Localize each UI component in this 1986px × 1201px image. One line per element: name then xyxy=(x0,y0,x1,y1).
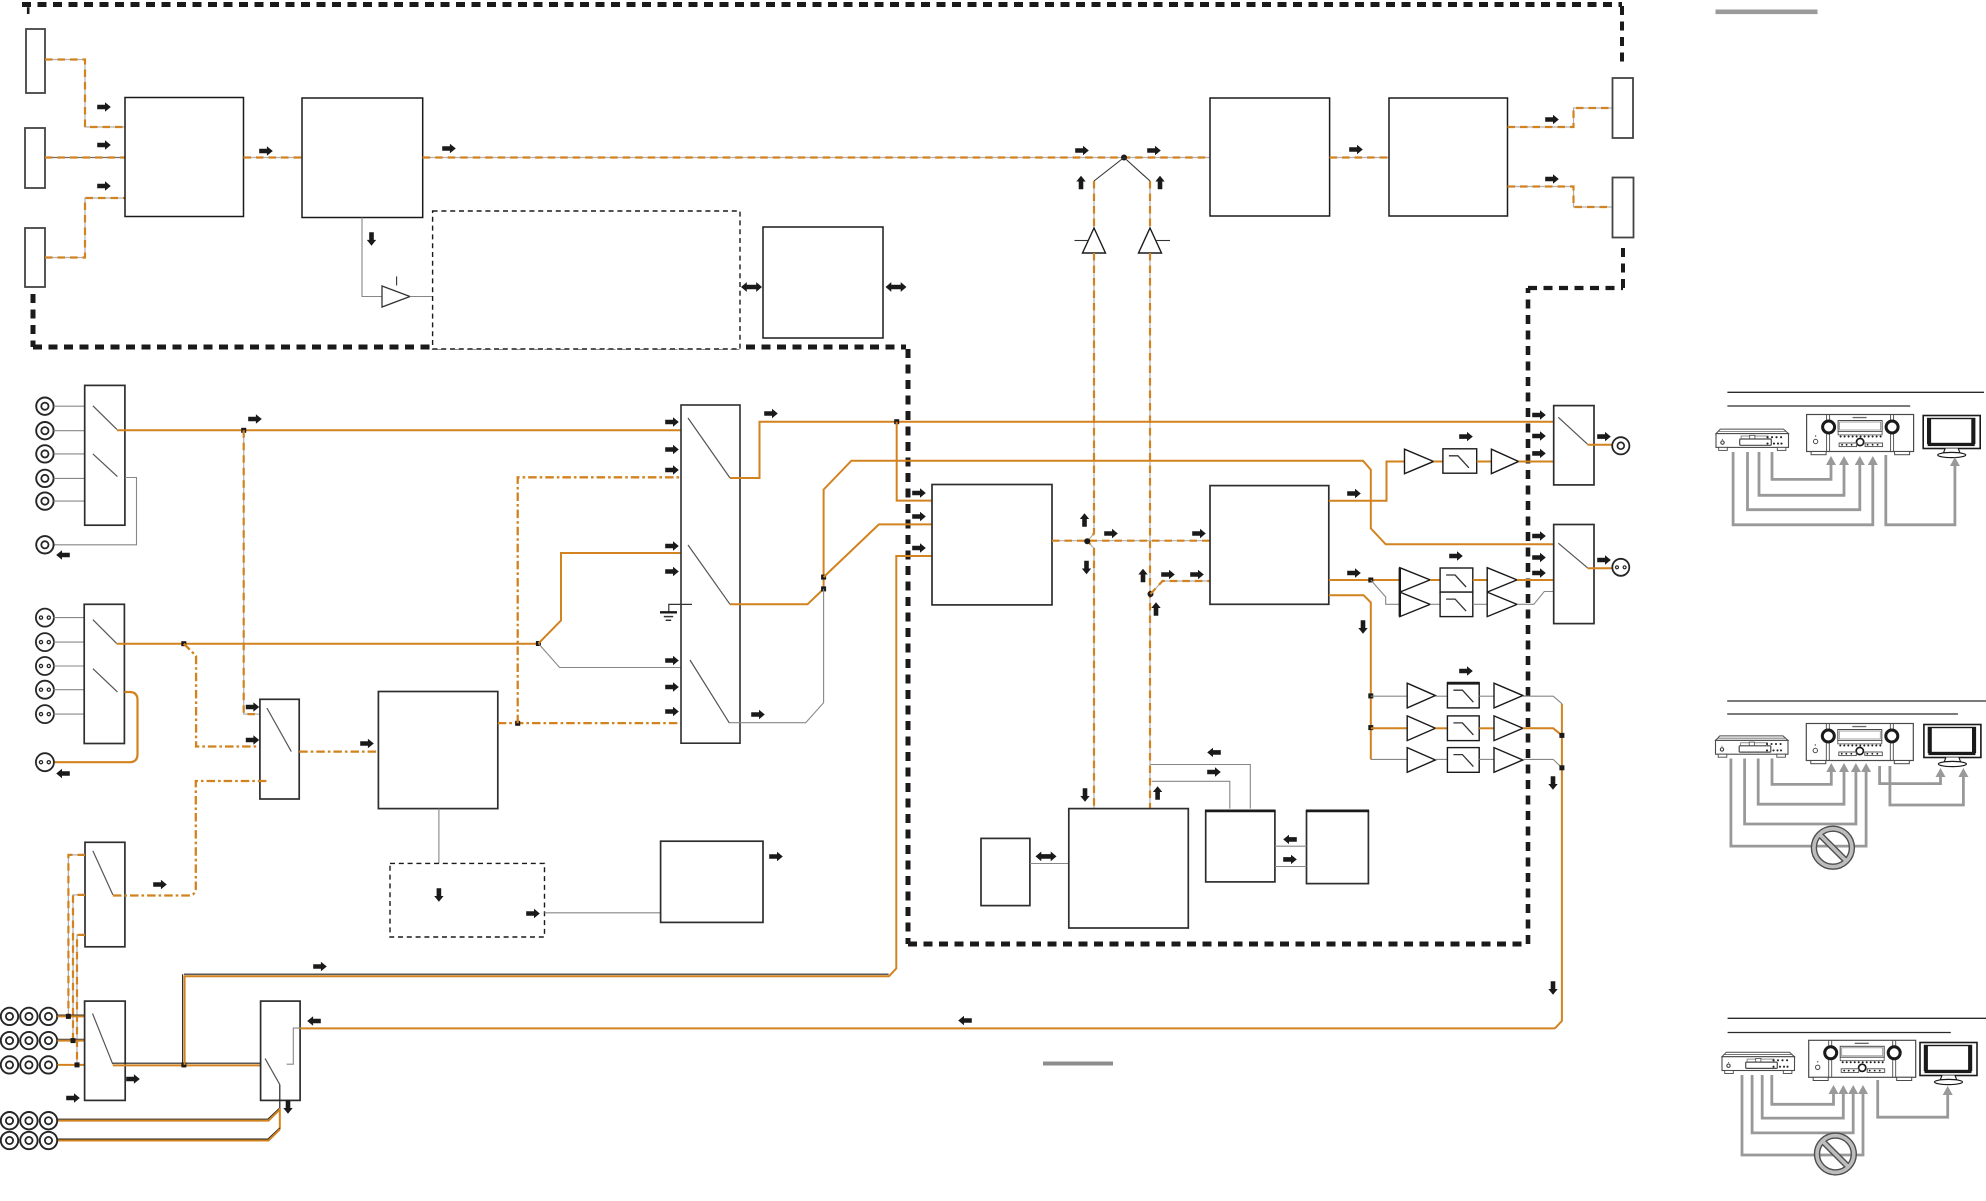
arrow SW7 in4 xyxy=(665,541,679,550)
wire zone lower merge xyxy=(1517,592,1554,605)
arrow ctrl2 xyxy=(1207,767,1221,776)
arrow right after junction xyxy=(1104,529,1118,538)
dashed border bottom edge y944 xyxy=(908,942,1528,947)
wire power amp return long xyxy=(300,1027,1555,1029)
filter surround LPF row1 xyxy=(1447,683,1479,708)
wire SW4 in1 from analog row1 xyxy=(68,855,85,1017)
amp surround out row1 xyxy=(1494,683,1523,708)
cable avr to tv group2 b xyxy=(1890,766,1964,805)
arrow input1 xyxy=(97,102,111,111)
wire SW6 contact step xyxy=(287,1028,301,1064)
wire out2 split lower xyxy=(1371,580,1400,604)
arrow input2 xyxy=(97,140,111,149)
wire U4 to HDMI OUT1 xyxy=(1508,108,1613,127)
heading rule group2 a xyxy=(1727,700,1986,702)
box memory U7 xyxy=(981,838,1030,905)
arrow after junction xyxy=(1147,146,1161,155)
arrow optical out xyxy=(56,769,70,778)
box record out selector SW4 xyxy=(85,842,125,947)
amp surround pre row3 xyxy=(1407,748,1435,773)
dashed border vertical x908 xyxy=(906,349,911,944)
cable dvd1 to avr group1 xyxy=(1772,452,1831,479)
connector HDMI IN 3 xyxy=(25,228,45,287)
box audio DSP DAC U6 xyxy=(1210,486,1329,605)
arrow swB in1 xyxy=(1532,531,1546,540)
wire U3 to U4 xyxy=(1330,157,1389,159)
wire speaker bus down xyxy=(1555,704,1562,1029)
arrow out2 xyxy=(1545,174,1559,183)
cable avr to tv group1 xyxy=(1886,455,1955,525)
wire U2 to CEC buffer xyxy=(362,218,382,297)
arrow down amp bank feed xyxy=(1358,620,1367,634)
arrow SW7a out xyxy=(764,409,778,418)
arrow swA in1 xyxy=(1532,410,1546,419)
wire opt1 xyxy=(53,617,84,619)
node branch to zone switch xyxy=(241,428,246,433)
connector headphone jack xyxy=(1612,437,1629,454)
box analog input selector SW5 xyxy=(85,1001,126,1100)
wire SW3 out to DSP2 xyxy=(299,750,378,752)
illustration AV receiver group2 xyxy=(1806,724,1913,764)
switch SW2a xyxy=(93,620,117,644)
wire branch to DIR in2 xyxy=(824,524,932,577)
switch SW5a xyxy=(93,1014,113,1065)
buffer CEC Q1 xyxy=(382,286,410,307)
wire pre to lpf xyxy=(1434,461,1443,463)
wire zone to switch B xyxy=(1517,579,1554,581)
wire SW4 in3 from analog row3 xyxy=(77,935,85,1065)
connector optical in 5 xyxy=(36,705,54,723)
tick repeater right xyxy=(1156,240,1170,242)
wire vertical repeater left lower xyxy=(1088,253,1095,809)
wire analog bus to ADC input xyxy=(184,973,889,975)
switch SW6a xyxy=(265,1059,280,1085)
arrow above zone LPF xyxy=(1449,551,1463,560)
wire swB out xyxy=(1587,567,1613,569)
arrow U1-U2 xyxy=(259,146,273,155)
arrow SW5 aux xyxy=(66,1093,80,1102)
connector optical in 3 xyxy=(36,657,54,675)
arrow bus down upper xyxy=(1548,776,1557,790)
connector HDMI IN 2 xyxy=(25,128,45,188)
box main DSP U8 xyxy=(1069,809,1189,928)
node bus row3 xyxy=(1559,765,1564,770)
dashed border left tick xyxy=(27,7,30,14)
wire vertical repeater left upper xyxy=(1093,181,1095,229)
buffer repeater right xyxy=(1139,228,1162,253)
wire zone lower b xyxy=(1473,603,1487,605)
amp zone out lower xyxy=(1487,592,1517,617)
cable dvd4 to avr group2 blocked xyxy=(1731,759,1866,847)
wire DSP ctrl line1 xyxy=(1151,765,1251,809)
cable dvd2 to avr group3 xyxy=(1762,1075,1843,1118)
heading rule group3 a xyxy=(1728,1017,1986,1019)
box HDMI receiver U1 xyxy=(125,98,244,217)
arrow SW5 out xyxy=(126,1074,140,1083)
arrow DSP3 out xyxy=(769,852,783,861)
arrow SW7 in7 xyxy=(665,682,679,691)
wire DSP2 out to input selector in8 xyxy=(498,722,693,724)
amp headphone pre xyxy=(1405,449,1434,474)
wire amp row3 in xyxy=(1371,758,1407,760)
box speaker AB switch SW6 xyxy=(261,1001,301,1100)
illustration AV receiver group1 xyxy=(1807,415,1914,455)
arrow U6 out1 xyxy=(1347,489,1361,498)
wire vertical repeater right upper xyxy=(1149,181,1151,229)
wire row3 to speaker bus xyxy=(1523,759,1562,767)
dashed border bottom edge of top band xyxy=(33,345,906,350)
wire optical out loop xyxy=(53,692,137,762)
amp zone pre upper xyxy=(1400,568,1430,592)
arrow up below right branch xyxy=(1151,602,1160,616)
dashed border jog y288 xyxy=(1528,286,1623,290)
wire U6 out1 xyxy=(1329,462,1405,501)
cable dvd4 to avr group1 xyxy=(1733,452,1873,525)
node analog bus tap xyxy=(181,1062,186,1067)
wire analog row1 xyxy=(58,1014,85,1016)
gray label bar bottom middle xyxy=(1043,1062,1113,1066)
box HDMI out driver U4 xyxy=(1389,98,1508,216)
node monitor bus to ADC xyxy=(894,419,899,424)
amp surround out row2 xyxy=(1494,716,1523,741)
wire coax2 xyxy=(54,430,85,432)
connector optical in 1 xyxy=(36,609,54,627)
cable dvd2 to avr group1 xyxy=(1759,452,1844,495)
cable avr to tv group2 a xyxy=(1880,766,1941,784)
box monitor out switch A xyxy=(1554,406,1594,485)
arrow SW3 in2 xyxy=(246,735,259,744)
arrow swB in3 xyxy=(1532,568,1546,577)
wire SW7b out riser xyxy=(730,461,1554,605)
connector preout row4 xyxy=(1,1112,18,1129)
connector HDMI OUT 2 xyxy=(1613,178,1634,238)
wire zone lower a xyxy=(1430,603,1440,605)
arrow SW7 in6 xyxy=(665,656,679,665)
arrow ADC in xyxy=(912,543,926,552)
wire vertical repeater right lower xyxy=(1149,253,1151,809)
amp zone out upper xyxy=(1487,568,1517,592)
amp surround pre row2 xyxy=(1407,716,1435,741)
switch SW1b xyxy=(93,454,118,477)
arrow bidir right of U5 xyxy=(886,282,907,292)
wire opt3 xyxy=(53,665,84,667)
connector optical in 2 xyxy=(36,633,54,651)
arrow analog bus xyxy=(313,962,327,971)
box digital interface DSP2 xyxy=(378,692,497,809)
wire row2 b xyxy=(1479,727,1494,729)
no-entry sign group3 xyxy=(1817,1136,1854,1173)
arrow after U2 xyxy=(442,144,456,153)
wire opt5 xyxy=(53,713,84,715)
wire SW4 out riser to SW3 input3 xyxy=(113,781,268,896)
connector coax digital in 4 xyxy=(36,470,53,487)
filter headphone LPF xyxy=(1443,449,1477,473)
dashed box system control xyxy=(433,211,740,349)
box HDMI transmitter U3 xyxy=(1210,98,1330,216)
amp surround out row3 xyxy=(1494,748,1523,773)
wire riser to SW3 input2 xyxy=(184,644,260,747)
connector coax digital out xyxy=(36,536,53,553)
dashed box crystal xyxy=(390,863,545,937)
wire amp row1 in xyxy=(1371,695,1407,697)
filter zone LPF upper xyxy=(1440,568,1473,592)
cable dvd2 to avr group2 xyxy=(1758,759,1844,805)
arrow up from DSP xyxy=(1153,786,1162,800)
arrow above surround LPF xyxy=(1459,666,1473,675)
illustration TV group3 xyxy=(1920,1043,1977,1085)
wire preout left channel xyxy=(58,1108,280,1119)
wire branch down to SW3 input1 xyxy=(244,430,260,714)
wire HDMI3 to receiver IC xyxy=(45,198,125,258)
arrow swA out xyxy=(1597,432,1611,441)
node HDMI junction xyxy=(1121,155,1127,161)
arrow DIR in2 xyxy=(912,512,926,521)
wire DIR out to DSP5 xyxy=(1052,540,1210,542)
switch SW2b xyxy=(93,669,118,692)
heading rule group3 b xyxy=(1728,1032,1951,1034)
connector speaker out xyxy=(1612,559,1629,576)
node row3 tap xyxy=(75,1062,80,1067)
amp zone pre lower xyxy=(1400,592,1430,617)
wire analog row3 xyxy=(58,1064,85,1066)
arrow SW7c out xyxy=(751,710,765,719)
wire coax4 xyxy=(54,477,85,479)
arrow crystal out xyxy=(526,909,540,918)
wire junction diagonal right xyxy=(1124,158,1150,182)
wire analog row2 xyxy=(58,1038,85,1040)
heading rule group2 b xyxy=(1727,713,1958,715)
arrow down into DSP xyxy=(1080,788,1089,802)
box input selector SW7 xyxy=(681,405,740,743)
connector coax digital in 5 xyxy=(36,492,53,509)
connector analog in row1 xyxy=(1,1008,18,1025)
box SDRAM U10 xyxy=(1307,811,1369,884)
buffer repeater left xyxy=(1083,228,1106,253)
arrow down below U2 xyxy=(367,232,376,246)
amp headphone out xyxy=(1491,449,1518,474)
wire row3 b xyxy=(1479,758,1494,760)
illustration DVD player group3 xyxy=(1722,1052,1795,1073)
arrow SW6 down xyxy=(283,1100,292,1114)
arrow DIR in1 xyxy=(912,488,926,497)
connector optical in 4 xyxy=(36,681,54,699)
wire coax out loop xyxy=(54,478,137,545)
switch A contact xyxy=(1558,417,1587,444)
wire coax1 xyxy=(54,405,85,407)
ground input selector xyxy=(669,604,692,611)
dashed border right edge upper xyxy=(1620,6,1624,64)
wire zone upper b xyxy=(1473,579,1487,581)
arrow bidir MCU-EEPROM xyxy=(741,282,762,292)
wire swA out xyxy=(1587,444,1613,446)
wire split down to input selector in6 xyxy=(538,644,692,668)
switch SW7c xyxy=(690,660,729,723)
arrow up right repeater xyxy=(1155,176,1164,189)
illustration TV group1 xyxy=(1923,416,1980,458)
arrow swB out xyxy=(1597,555,1611,564)
wire row3 a xyxy=(1435,758,1447,760)
cable dvd3 to avr group2 xyxy=(1745,759,1856,825)
connector analog in row2 xyxy=(1,1032,18,1049)
arrow SW4 out xyxy=(153,880,167,889)
filter surround LPF row3 xyxy=(1447,748,1479,773)
filter surround LPF row2 xyxy=(1447,716,1479,741)
connector HDMI OUT 1 xyxy=(1613,78,1634,138)
node tee to in3 xyxy=(515,721,520,726)
wire U2 long to U3 xyxy=(423,157,1210,159)
arrow down inside crystal box xyxy=(434,888,443,902)
arrow SW7 in2 xyxy=(665,445,679,454)
box flash U9 xyxy=(1206,811,1275,882)
wire memory to DSP xyxy=(1030,863,1069,865)
arrow SW3 in1 xyxy=(246,702,259,711)
switch SW7a xyxy=(688,418,730,478)
arrow up left repeater xyxy=(1076,176,1085,189)
dashed border segment below HDMI out connector xyxy=(1621,246,1625,288)
node riser rec branch xyxy=(821,586,826,591)
node amp row2 tap xyxy=(1368,725,1373,730)
arrow bus down lower xyxy=(1548,981,1557,995)
heading rule group1 b xyxy=(1727,405,1910,407)
illustration DVD player group1 xyxy=(1716,429,1789,450)
wire SW5 out to SW6 xyxy=(113,1062,261,1064)
arrow U3-U4 xyxy=(1349,145,1363,154)
wire junction diagonal left xyxy=(1094,158,1124,182)
arrow before junction xyxy=(1075,146,1089,155)
wire amp row2 in xyxy=(1371,727,1407,729)
node riser DIR branch xyxy=(821,575,826,580)
wire lpf to amp xyxy=(1477,461,1492,463)
box digital interface receiver DIR xyxy=(932,485,1052,605)
wire U9-U10 upper xyxy=(1275,845,1307,847)
wire preout right channel xyxy=(58,1128,280,1139)
cable dvd3 to avr group3 xyxy=(1752,1075,1853,1133)
wire row2 a xyxy=(1435,727,1447,729)
connector coax digital in 1 xyxy=(36,398,53,415)
wire row1 b xyxy=(1479,695,1494,697)
arrow coax out xyxy=(56,550,70,559)
node split to input selector xyxy=(536,641,541,646)
connector preout row5 xyxy=(1,1132,18,1149)
wire coax5 xyxy=(54,500,85,502)
wire coax3 xyxy=(54,453,85,455)
node bus row2 xyxy=(1559,733,1564,738)
arrow U6 out2 xyxy=(1347,568,1361,577)
connector HDMI IN 1 xyxy=(26,29,45,93)
node branch to tape selector riser xyxy=(181,641,186,646)
wire monitor bus down to DIR in1 xyxy=(897,422,932,501)
switch SW3a xyxy=(267,708,291,752)
wire SW6 output down xyxy=(279,1085,281,1110)
heading rule group1 a xyxy=(1727,391,1984,393)
illustration AV receiver group3 xyxy=(1809,1040,1916,1080)
box DSP3 xyxy=(661,841,763,922)
arrow swB in2 xyxy=(1532,553,1546,562)
connector analog in row3 xyxy=(1,1056,18,1073)
wire HDMI2 to receiver IC xyxy=(45,157,125,159)
arrow up left of right branch xyxy=(1138,569,1147,582)
wire zone upper a xyxy=(1430,579,1440,581)
wire split up to input selector in4 xyxy=(538,553,695,644)
connector coax digital in 3 xyxy=(36,445,53,462)
illustration DVD player group2 xyxy=(1716,736,1789,757)
wire optical selected bus xyxy=(117,643,539,645)
switch SW7b xyxy=(688,545,730,604)
box monitor out switch B xyxy=(1554,525,1594,624)
arrow bidir memory xyxy=(1036,852,1057,862)
box coax input selector SW1 xyxy=(85,385,125,525)
wire row1 a xyxy=(1435,695,1447,697)
node DIR out to repeater left xyxy=(1088,534,1095,549)
amp surround pre row1 xyxy=(1407,683,1435,708)
arrow after SW1 xyxy=(248,414,262,423)
arrow U9-U10 lower xyxy=(1283,855,1297,864)
arrow input3 xyxy=(97,181,111,190)
node row2 tap xyxy=(71,1038,76,1043)
cable dvd1 to avr group3 xyxy=(1772,1075,1834,1104)
arrow input selector in3 xyxy=(665,465,679,474)
wire U1 to U2 xyxy=(244,157,303,159)
wire tee up to input selector in3 xyxy=(518,477,693,723)
wire DSP2 down to clock box xyxy=(438,809,440,886)
wire SW7c out to riser xyxy=(729,589,823,723)
box zone digital switch SW3 xyxy=(260,699,299,799)
wire CEC buffer to MCU block xyxy=(410,296,433,298)
cable avr to tv group3 xyxy=(1878,1080,1948,1117)
cable dvd4 to avr group3 blocked xyxy=(1742,1075,1863,1155)
arrow up at repeater junction xyxy=(1080,513,1089,527)
dashed border digital section top edge xyxy=(22,2,1622,7)
wire row2 to speaker bus xyxy=(1523,728,1562,735)
arrow swA in3 xyxy=(1532,449,1546,458)
node out2 split xyxy=(1368,578,1373,583)
bold input edge zone amps xyxy=(1399,568,1401,617)
connector optical out xyxy=(36,753,54,771)
dashed border right edge x1528 xyxy=(1526,288,1531,944)
arrow SW3 out xyxy=(360,739,374,748)
connector coax digital in 2 xyxy=(36,422,53,439)
wire opt2 xyxy=(53,641,84,643)
node row1 tap xyxy=(66,1014,71,1019)
arrow DSP5 in2a xyxy=(1161,570,1175,579)
arrow out1 xyxy=(1545,115,1559,124)
dashed border left edge lower xyxy=(31,294,36,347)
arrow swA in2 xyxy=(1532,431,1546,440)
wire SW4 in2 from analog row2 xyxy=(73,895,85,1041)
node amp row1 tap xyxy=(1368,693,1373,698)
box optical input selector SW2 xyxy=(84,604,124,743)
cable dvd1 to avr group2 xyxy=(1772,759,1831,785)
box HDMI switch U2 xyxy=(302,98,423,218)
no-entry sign group2 xyxy=(1814,829,1852,867)
wire SW7a out to monitor bus xyxy=(730,422,1554,478)
wire amp to monitor switch A xyxy=(1519,461,1554,463)
arrow DSP5 in1 xyxy=(1192,529,1206,538)
wire crystal to DSP3 xyxy=(545,912,661,914)
switch B contact xyxy=(1558,543,1587,568)
arrow SW7 in5 xyxy=(665,567,679,576)
wire HDMI1 to receiver IC xyxy=(45,60,125,128)
arrow U9-U10 upper xyxy=(1283,835,1297,844)
arrow down below junction xyxy=(1082,561,1091,574)
arrow above headphone LPF xyxy=(1459,432,1473,441)
wire opt4 xyxy=(53,689,84,691)
gray heading bar top right xyxy=(1716,10,1818,15)
wire coax selected to input selector xyxy=(117,429,697,431)
box microcontroller U5 xyxy=(763,227,883,338)
switch SW1a xyxy=(93,406,117,430)
arrow input selector in8 xyxy=(665,707,679,716)
